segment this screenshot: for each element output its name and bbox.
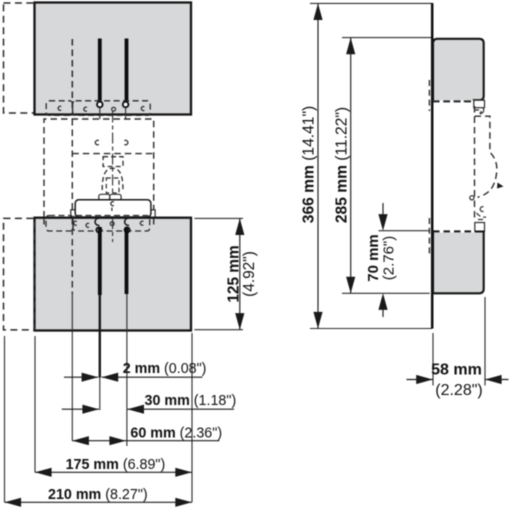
pole 1 dashed inside block [71, 218, 73, 294]
dim 125mm extension bottom [194, 329, 243, 331]
dim 2mm arrowheads [82, 373, 99, 382]
top terminal clamp poles 2-3 (dashed) [73, 101, 151, 116]
busbar dashed extension top-left [4, 3, 35, 113]
ext line total top [310, 2, 432, 4]
base small c [111, 202, 114, 206]
center line [112, 112, 114, 219]
top block shroud notch [474, 100, 485, 108]
mounting panel line [431, 3, 434, 329]
device bottom dashed (side) [434, 230, 474, 232]
pole 2 conductor bar bottom [98, 227, 102, 295]
device outline ticks inside block [43, 218, 45, 226]
dim 285 arrowheads [346, 38, 355, 55]
dim 70 upper arrow [382, 203, 384, 216]
svg-text:(2.76"): (2.76") [381, 236, 398, 281]
top terminal c-marks [58, 106, 61, 110]
top terminal bolt pole 2 [97, 102, 103, 108]
c-mark mid right [124, 140, 127, 144]
svg-text:(2.28"): (2.28") [435, 382, 482, 399]
ext line total bottom [310, 328, 432, 330]
busbar dashed extension bottom-left [4, 218, 35, 330]
device dashed horizontal [72, 153, 153, 155]
device front shroud step dashed [475, 110, 482, 115]
pole 2 conductor bar [98, 39, 102, 105]
dim 30mm arrowheads [82, 405, 99, 414]
front bottom details dashed [477, 213, 487, 220]
pole 1 extension line [71, 294, 73, 441]
dim 30mm line [62, 408, 99, 410]
base plate right foot [148, 210, 156, 218]
device back dashed (side) [428, 80, 430, 111]
bottom terminal c-marks [74, 221, 77, 225]
svg-text:125 mm: 125 mm [225, 245, 242, 302]
top terminal bolt pole 3 [123, 102, 129, 108]
bottom terminal block (side) [433, 232, 484, 294]
ext line 70 top [379, 230, 430, 232]
dim 58 extension right [484, 297, 486, 386]
bottom terminal bolt pole 3 [125, 227, 130, 232]
device front dashed (side) [474, 106, 476, 219]
dim 175mm arrowheads [35, 468, 52, 477]
extension line left block edge [34, 336, 36, 472]
pole 1 conductor (dashed) [71, 39, 73, 115]
base plate left foot [71, 210, 79, 218]
pole 3 conductor bar bottom [125, 227, 129, 294]
dim 285 line [350, 38, 352, 294]
dim 58 line left [407, 379, 433, 381]
bottom terminal bolt pole 2 [96, 227, 101, 232]
trip unit inner box (dashed) [106, 178, 119, 193]
bottom block shroud notch [475, 223, 485, 232]
extension line right block edge [191, 333, 193, 502]
handle mark [497, 183, 504, 189]
extension line dashed-rect edge [4, 336, 6, 502]
dim 366 arrowheads [313, 3, 322, 20]
top terminal clamp pole 1 (dashed) [46, 101, 72, 116]
device top dashed (side) [433, 100, 475, 102]
dim 60mm arrowheads [72, 436, 89, 445]
c-mark mid left [95, 140, 98, 144]
dim 210mm line [5, 501, 192, 503]
bottom terminal C ring pole 3 [125, 218, 129, 225]
device inner dashed vertical (pole 1) [71, 119, 73, 218]
svg-text:210 mm (8.27"): 210 mm (8.27") [48, 487, 148, 503]
trip unit base tabs [99, 194, 110, 200]
center line inside block [112, 218, 114, 242]
trip unit upper box (dashed) [103, 157, 123, 167]
bottom terminal C ring pole 2 [95, 218, 99, 225]
top terminal small circle [112, 107, 116, 111]
svg-text:2 mm (0.08"): 2 mm (0.08") [123, 361, 207, 377]
front small circle lower [480, 207, 483, 212]
ext line 285 top [342, 37, 432, 39]
bottom terminal small circle [110, 222, 114, 226]
dim 125mm arrowheads [235, 218, 244, 235]
svg-text:175 mm (6.89"): 175 mm (6.89") [66, 457, 166, 473]
dim 125mm extension top [194, 217, 243, 219]
top busbar block [35, 3, 192, 115]
pole 3 conductor bar [125, 39, 129, 105]
svg-text:(4.92"): (4.92") [241, 251, 258, 297]
ext line block bottom [342, 292, 430, 294]
device escutcheon profile dashed [475, 116, 497, 197]
base small dash [111, 208, 113, 212]
dim 60mm line [72, 440, 219, 442]
dim 210mm arrowheads [5, 498, 22, 507]
pole 3 extension line [126, 294, 128, 446]
svg-text:58 mm: 58 mm [431, 362, 482, 379]
dim 58 extension left [432, 333, 434, 386]
dim 366 line [317, 3, 319, 328]
top terminal block (side) [433, 39, 484, 102]
bottom terminal clamp poles 2-3 (dashed) [73, 216, 150, 232]
dim 2mm line [64, 376, 98, 378]
device outline dashed (front view) [44, 119, 154, 218]
dim 58 line right [485, 379, 509, 381]
front small circle upper [470, 196, 474, 200]
bottom terminal clamp pole 1 (dashed) [46, 216, 73, 232]
svg-text:30 mm (1.18"): 30 mm (1.18") [145, 393, 237, 409]
dim 125mm line [239, 218, 241, 329]
bottom busbar block [35, 218, 192, 331]
base plate rounded rect [75, 200, 151, 217]
svg-text:60 mm (2.36"): 60 mm (2.36") [130, 425, 222, 441]
pole 2 conductor extension [99, 295, 101, 378]
svg-text:366 mm (14.41"): 366 mm (14.41") [301, 106, 318, 223]
trip unit bell (dashed) [102, 168, 123, 190]
dim 70 lower arrow [382, 309, 384, 317]
svg-text:70 mm: 70 mm [365, 234, 382, 282]
dim 175mm line [35, 471, 192, 473]
svg-text:285 mm (11.22"): 285 mm (11.22") [333, 107, 350, 223]
